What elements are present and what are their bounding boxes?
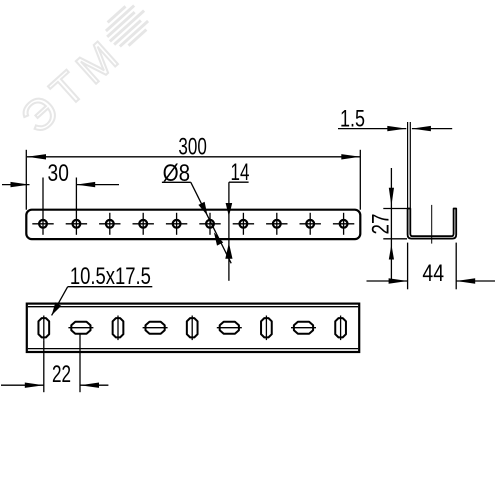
leader arrow down-right [198, 202, 207, 216]
hole 5 [166, 213, 187, 235]
top view: strip outline [26, 210, 360, 239]
slot 1 vertical [38, 316, 49, 341]
slot 2 horizontal [68, 322, 93, 334]
bottom view: strip outline [27, 304, 359, 352]
svg-text:Ø8: Ø8 [163, 160, 191, 187]
slots: alternating vertical and horizontal oblong holes [38, 316, 346, 341]
bend tangent lines [28, 306, 358, 308]
dimension 22 [1, 334, 108, 393]
slot 5 vertical [187, 316, 198, 341]
dimension 1.5 [338, 106, 452, 133]
slot 6 horizontal [217, 322, 242, 334]
dimension 300 [26, 133, 360, 209]
hole 9 [300, 213, 321, 235]
hole 2 [66, 178, 87, 235]
slot 3 vertical [113, 316, 124, 341]
hole 1 [32, 178, 53, 235]
leader line through hole 6 [191, 182, 231, 263]
holes group: 10 round holes with crosshairs [32, 178, 354, 235]
hole 8 [266, 213, 287, 235]
hole 6 [199, 213, 220, 235]
slot 4 horizontal [143, 322, 168, 334]
hole 10 [333, 213, 354, 235]
slot 8 horizontal [291, 322, 316, 334]
channel vertical centerline [431, 205, 433, 244]
svg-text:30: 30 [48, 160, 69, 187]
svg-text:27: 27 [368, 214, 395, 235]
label diameter 8 [162, 160, 231, 263]
wall face extension lines [407, 122, 409, 209]
svg-text:300: 300 [178, 133, 206, 160]
dimension 30 [2, 160, 119, 187]
dimension 27 [368, 168, 410, 281]
watermark ETM logo disc [99, 0, 154, 53]
slot 9 vertical [335, 316, 346, 341]
svg-text:22: 22 [52, 361, 71, 388]
svg-text:44: 44 [422, 260, 444, 287]
slot 7 vertical [261, 316, 272, 341]
side view: channel section profile [408, 209, 457, 239]
label 10.5x17.5 [52, 263, 153, 316]
dimension 44 [367, 243, 496, 290]
leader arrow up-left [214, 232, 223, 245]
hole 4 [133, 213, 154, 235]
svg-text:10.5x17.5: 10.5x17.5 [70, 263, 151, 290]
hole 7 [233, 213, 254, 235]
dimension 14 [225, 159, 249, 281]
hole 3 [99, 213, 120, 235]
